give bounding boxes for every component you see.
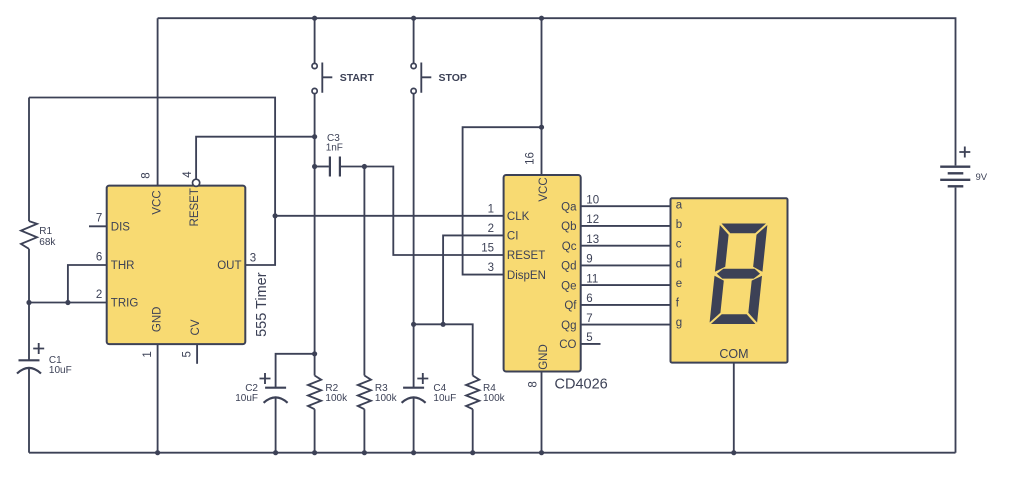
node: CD4026 GND on ground rail: [539, 450, 544, 455]
resistor R4: [466, 376, 479, 410]
svg-text:VCC: VCC: [152, 190, 164, 214]
svg-text:2: 2: [96, 289, 102, 301]
node: C4 on ground rail: [411, 450, 416, 455]
svg-text:15: 15: [481, 243, 494, 255]
wire: START bottom down through R2 node: [314, 94, 316, 376]
svg-text:COM: COM: [719, 347, 748, 361]
wire: Qd to display d: [581, 264, 671, 266]
node: STOP link junction: [411, 322, 416, 327]
svg-text:100k: 100k: [325, 393, 348, 404]
wire: Qf to display f: [581, 304, 671, 306]
svg-text:a: a: [676, 200, 683, 212]
segment g: [716, 269, 760, 279]
svg-text:CO: CO: [559, 339, 576, 351]
svg-text:100k: 100k: [375, 393, 398, 404]
wire: Qg to display g: [581, 324, 671, 326]
svg-text:c: c: [676, 239, 682, 251]
resistor R2: [308, 376, 321, 410]
pin 1 wire: 555 GND to ground rail: [157, 344, 159, 453]
svg-text:START: START: [340, 72, 375, 84]
svg-text:6: 6: [586, 293, 592, 305]
segment d: [711, 314, 757, 324]
node: R3 on ground rail: [362, 450, 367, 455]
svg-text:9: 9: [586, 254, 592, 266]
pin 5 stub: CO: [581, 343, 601, 345]
7-segment display DS1 body: [671, 198, 788, 362]
pin 16 wire: CD4026 VCC to top rail: [541, 18, 543, 175]
svg-text:RESET: RESET: [189, 188, 201, 226]
battery plus sign: [959, 147, 970, 158]
pushbutton STOP: [413, 18, 415, 63]
node: 555 RESET junction: [312, 134, 317, 139]
wire: STOP bottom down to C4: [413, 94, 415, 388]
wire: STOP/CI/R4 link line: [414, 324, 473, 375]
svg-text:100k: 100k: [483, 393, 506, 404]
svg-text:6: 6: [96, 251, 102, 263]
svg-text:VCC: VCC: [538, 177, 550, 201]
svg-text:Qa: Qa: [561, 202, 577, 214]
node: STOP on top rail: [411, 16, 416, 21]
svg-text:1nF: 1nF: [326, 143, 343, 154]
svg-text:CV: CV: [190, 319, 202, 335]
svg-text:THR: THR: [111, 260, 135, 272]
wire: Qe to display e: [581, 284, 671, 286]
wire: CD4026 CI pin 2 to link line: [443, 235, 504, 324]
svg-text:4: 4: [182, 171, 194, 178]
node: C2 on ground rail: [273, 450, 278, 455]
svg-text:Qe: Qe: [561, 280, 576, 292]
svg-text:R1: R1: [39, 226, 52, 237]
node: CD4026 VCC on top rail: [539, 16, 544, 21]
segment c: [747, 276, 762, 323]
capacitor C3 1nF: [315, 166, 329, 168]
svg-text:Qg: Qg: [561, 320, 576, 332]
svg-text:9V: 9V: [976, 172, 988, 183]
svg-text:Qc: Qc: [562, 241, 577, 253]
pin 7 stub: 555 DIS: [89, 225, 107, 227]
wire: top VCC rail and right rail to battery +: [158, 18, 956, 165]
resistor R3: [358, 376, 371, 410]
node: START on top rail: [312, 16, 317, 21]
svg-text:Qf: Qf: [564, 300, 577, 312]
node: CI link junction: [441, 322, 446, 327]
pin 5 stub: 555 CV: [196, 344, 198, 364]
svg-text:GND: GND: [538, 344, 550, 370]
wire: C2 bottom to ground rail: [275, 397, 277, 452]
svg-text:DispEN: DispEN: [507, 270, 546, 282]
capacitor C4 10uF: [403, 387, 424, 389]
svg-text:b: b: [676, 219, 682, 231]
svg-text:10uF: 10uF: [49, 365, 72, 376]
node: R2 on ground rail: [312, 450, 317, 455]
node: C3 left junction: [312, 164, 317, 169]
wire: second rail from left rail to 555 OUT node: [29, 98, 275, 266]
node: R4 on ground rail: [470, 450, 475, 455]
svg-text:g: g: [676, 317, 682, 329]
wire: left rail between R1 and C1: [28, 249, 30, 360]
pushbutton START: [314, 18, 316, 63]
svg-text:e: e: [676, 278, 682, 290]
capacitor C2 10uF: [265, 387, 286, 389]
segment a: [720, 224, 766, 234]
svg-text:10: 10: [586, 194, 599, 206]
svg-text:13: 13: [586, 234, 599, 246]
wire: Qc to display c: [581, 245, 671, 247]
svg-text:5: 5: [182, 351, 194, 357]
wire: R4 bottom to ground rail: [472, 409, 474, 453]
svg-text:10uF: 10uF: [235, 393, 258, 404]
svg-text:CLK: CLK: [507, 211, 530, 223]
IC U2 CD4026 body: [504, 175, 581, 372]
node: C2/R2 junction: [312, 351, 317, 356]
wire: R3 bottom to ground rail: [363, 409, 365, 453]
node: C3 right / R3 junction: [362, 164, 367, 169]
svg-text:8: 8: [141, 172, 153, 178]
svg-text:STOP: STOP: [439, 72, 467, 84]
wire: COM to ground rail: [733, 363, 735, 453]
pin 2 wire: 555 TRIG to left rail: [29, 302, 107, 304]
segment e: [710, 276, 725, 323]
7-segment digit 8: [709, 224, 767, 325]
wire: R3 branch down: [363, 167, 365, 376]
node: 555 GND on ground rail: [155, 450, 160, 455]
wire: R2 bottom to ground rail: [314, 409, 316, 453]
svg-text:Qb: Qb: [561, 221, 576, 233]
svg-text:1: 1: [142, 351, 154, 357]
svg-text:16: 16: [524, 152, 536, 165]
svg-text:555 Timer: 555 Timer: [254, 272, 270, 337]
svg-text:CD4026: CD4026: [555, 377, 608, 393]
svg-text:CI: CI: [507, 231, 519, 243]
pin 4 wire: 555 RESET to START node: [196, 137, 315, 180]
pin 8 wire: 555 VCC to top rail: [157, 18, 159, 185]
svg-text:8: 8: [528, 381, 540, 387]
svg-text:TRIG: TRIG: [111, 298, 139, 310]
svg-text:12: 12: [586, 214, 599, 226]
wire: C4 bottom to ground rail: [413, 397, 415, 452]
pin 8 wire: CD4026 GND to ground rail: [541, 372, 543, 453]
svg-text:3: 3: [488, 262, 494, 274]
node: COM on ground rail: [731, 450, 736, 455]
segment f: [715, 225, 730, 272]
node: TRIG junction on left rail: [26, 300, 31, 305]
svg-text:OUT: OUT: [217, 260, 241, 272]
segment b: [753, 225, 768, 272]
svg-text:7: 7: [586, 313, 592, 325]
capacitor C1: [19, 359, 40, 361]
wire: C3 right to CD4026 RESET pin 15: [341, 167, 504, 256]
svg-text:68k: 68k: [39, 237, 56, 248]
svg-text:3: 3: [250, 253, 256, 265]
svg-text:5: 5: [586, 332, 592, 344]
node: OUT/CLK junction: [273, 213, 278, 218]
svg-text:RESET: RESET: [507, 250, 545, 262]
op-amp/IC U1 555 timer body: [107, 186, 246, 345]
wire: Qb to display b: [581, 225, 671, 227]
svg-text:1: 1: [488, 203, 494, 215]
svg-text:11: 11: [586, 273, 598, 285]
svg-text:GND: GND: [152, 307, 164, 333]
svg-text:7: 7: [96, 213, 102, 225]
active-low bubble on 555 pin 4: [193, 179, 200, 186]
wire: bottom ground rail: [29, 452, 956, 454]
battery BT1 9V: [940, 165, 970, 167]
wire: left rail below C1 to ground rail: [28, 368, 30, 453]
svg-text:DIS: DIS: [111, 222, 131, 234]
pin 6 wire: 555 THR down to TRIG node: [68, 265, 107, 303]
svg-text:10uF: 10uF: [433, 393, 456, 404]
wire: C2 branch: [276, 354, 315, 388]
node: DispEN on CD4026 VCC wire: [539, 125, 544, 130]
svg-text:Qd: Qd: [561, 261, 576, 273]
svg-text:d: d: [676, 258, 682, 270]
resistor R1: [21, 221, 37, 249]
wire: battery negative to bottom-right rail: [955, 188, 957, 453]
node: THR/TRIG junction: [65, 300, 70, 305]
svg-text:2: 2: [488, 223, 494, 235]
wire: Qa to display a: [581, 205, 671, 207]
wire: left rail upper (OUT feedback to R1): [28, 98, 30, 222]
wire: CLK line from OUT node to CD4026 pin 1: [275, 215, 504, 217]
wire: CD4026 DispEN pin 3 to VCC node: [463, 127, 542, 274]
